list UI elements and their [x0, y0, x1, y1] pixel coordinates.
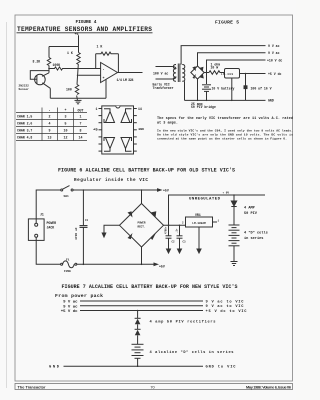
svg-text:+: +: [65, 108, 67, 112]
svg-text:+5: +5: [75, 33, 79, 37]
svg-text:C1: C1: [85, 219, 89, 222]
svg-text:CHAN 3,7: CHAN 3,7: [17, 129, 32, 133]
svg-text:TEMPERATURE SENSORS AND AMPLIF: TEMPERATURE SENSORS AND AMPLIFIERS: [17, 26, 152, 33]
svg-text:1: 1: [80, 115, 82, 119]
svg-text:FIGURE 5: FIGURE 5: [215, 20, 239, 26]
svg-text:FIGURE 7 ALCALINE CELL BATTERY: FIGURE 7 ALCALINE CELL BATTERY BACK-UP F…: [62, 284, 238, 290]
svg-text:VR1: VR1: [195, 213, 201, 217]
svg-text:in series: in series: [244, 236, 263, 241]
svg-text:10 V battery: 10 V battery: [212, 86, 235, 90]
svg-text:8: 8: [80, 129, 82, 133]
svg-text:+5 V dc to VIC: +5 V dc to VIC: [206, 309, 248, 314]
svg-text:1 K: 1 K: [97, 45, 103, 49]
svg-text:+10 V dc: +10 V dc: [267, 58, 282, 62]
svg-text:Sensor: Sensor: [19, 88, 30, 91]
svg-text:10: 10: [64, 129, 68, 133]
svg-text:14: 14: [138, 107, 142, 111]
svg-text:The specs for the early VIC tr: The specs for the early VIC transformer …: [157, 116, 293, 121]
svg-text:The Transactor: The Transactor: [18, 385, 47, 389]
svg-text:9 V ac: 9 V ac: [268, 44, 280, 48]
svg-text:4 "D" cells: 4 "D" cells: [244, 231, 268, 236]
svg-text:4 amp 50 PIV rectifiers: 4 amp 50 PIV rectifiers: [150, 320, 216, 325]
svg-text:at 3 amps.: at 3 amps.: [157, 121, 178, 125]
svg-text:12: 12: [64, 136, 68, 140]
svg-text:From power pack: From power pack: [55, 293, 103, 299]
svg-text:FIGURE 4: FIGURE 4: [76, 19, 97, 25]
svg-text:POWER: POWER: [137, 222, 145, 225]
svg-text:GND to VIC: GND to VIC: [206, 365, 237, 369]
svg-text:3: 3: [65, 115, 67, 119]
svg-text:-: -: [103, 68, 105, 72]
svg-text:10 W: 10 W: [211, 66, 219, 70]
svg-text:4700 uF: 4700 uF: [75, 227, 78, 240]
svg-text:Transformer: Transformer: [153, 86, 174, 90]
svg-text:CHAN 4,8: CHAN 4,8: [17, 136, 32, 140]
svg-text:FUSE: FUSE: [64, 270, 71, 273]
svg-text:50 PIV bridge: 50 PIV bridge: [191, 105, 216, 109]
svg-text:5: 5: [65, 122, 67, 126]
svg-text:9 V ac to VIC: 9 V ac to VIC: [206, 300, 245, 304]
svg-text:+ 9V: + 9V: [223, 192, 230, 195]
svg-text:9 V ac: 9 V ac: [63, 301, 78, 305]
svg-text:C2: C2: [172, 241, 176, 244]
svg-text:UNREGULATED: UNREGULATED: [189, 198, 221, 202]
svg-text:FIGURE 6 ALCALINE CELL BATTERY: FIGURE 6 ALCALINE CELL BATTERY BACK-UP F…: [58, 168, 235, 174]
svg-text:+5: +5: [93, 129, 98, 133]
svg-text:LM-309: LM-309: [221, 73, 233, 76]
svg-text:100 uf 16 V: 100 uf 16 V: [251, 87, 272, 91]
svg-text:100K: 100K: [53, 63, 61, 67]
svg-text:14: 14: [79, 136, 83, 140]
svg-text:RECT.: RECT.: [137, 226, 145, 229]
svg-text:F1: F1: [66, 258, 70, 261]
svg-text:4 alcaline "D" cells in series: 4 alcaline "D" cells in series: [150, 350, 234, 355]
svg-text:+5 V dc: +5 V dc: [61, 309, 78, 314]
svg-text:9 V ac to VIC: 9 V ac to VIC: [206, 305, 245, 309]
svg-text:+5 V dc: +5 V dc: [268, 72, 281, 76]
svg-text:9 V ac: 9 V ac: [63, 305, 78, 309]
svg-text:9 V ac: 9 V ac: [268, 51, 280, 55]
svg-text:GND: GND: [49, 365, 60, 369]
svg-text:1/4 LM 324: 1/4 LM 324: [117, 78, 134, 82]
svg-text:OUT: OUT: [78, 109, 84, 113]
svg-text:+: +: [103, 77, 105, 81]
svg-text:4700+: 4700+: [165, 226, 168, 234]
svg-text:1: 1: [96, 107, 98, 111]
svg-text:2: 2: [49, 115, 51, 119]
svg-text:SW1: SW1: [64, 195, 69, 198]
svg-text:CHAN 1,5: CHAN 1,5: [17, 115, 32, 119]
svg-text:Regulator inside the VIC: Regulator inside the VIC: [74, 178, 148, 183]
svg-text:CHAN 2,6: CHAN 2,6: [17, 122, 32, 126]
svg-text:50 PIV: 50 PIV: [244, 212, 258, 216]
svg-text:C3: C3: [183, 241, 187, 244]
svg-text:100: 100: [66, 88, 72, 92]
svg-text:.1+: .1+: [176, 228, 179, 233]
svg-text:-: -: [49, 108, 51, 112]
svg-text:May 1986: Volume 6, Issue 06: May 1986: Volume 6, Issue 06: [246, 385, 291, 389]
svg-text:+5V: +5V: [159, 265, 165, 269]
svg-text:4 AMP: 4 AMP: [244, 207, 255, 211]
svg-text:+5V: +5V: [163, 189, 169, 193]
svg-text:LM-309AM: LM-309AM: [192, 222, 206, 225]
svg-text:connected at the same point as: connected at the same point as the start…: [157, 137, 287, 141]
svg-text:7: 7: [80, 122, 82, 126]
svg-text:1 K: 1 K: [67, 51, 73, 55]
svg-text:J1: J1: [40, 213, 44, 217]
svg-text:8.2K: 8.2K: [33, 60, 41, 64]
svg-text:JACK: JACK: [47, 225, 55, 229]
svg-text:13: 13: [48, 136, 52, 140]
svg-text:4: 4: [49, 122, 51, 126]
svg-text:GND: GND: [268, 99, 274, 103]
svg-text:GND: GND: [139, 128, 145, 131]
svg-text:100 V ac: 100 V ac: [153, 72, 168, 76]
svg-text:9: 9: [49, 129, 51, 133]
